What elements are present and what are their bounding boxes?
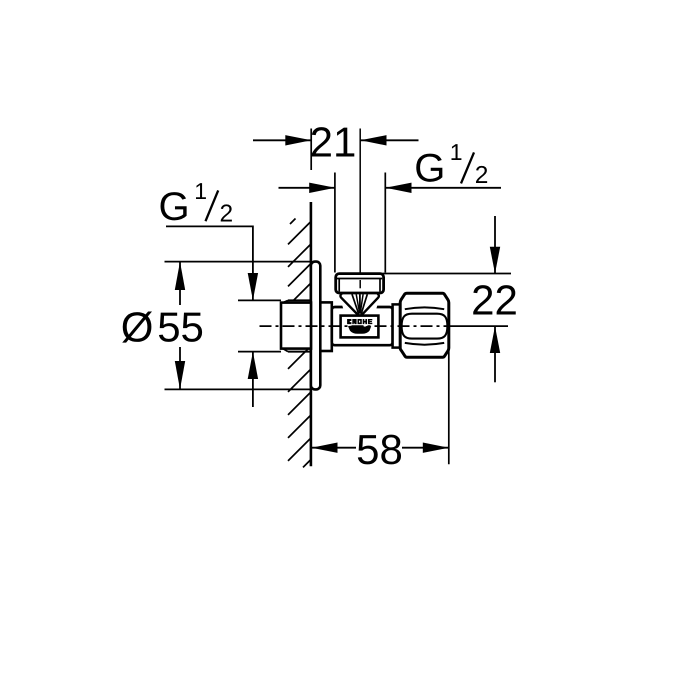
svg-text:58: 58 <box>356 426 403 473</box>
valve body <box>332 307 393 345</box>
dimension diameter 55 <box>121 262 311 390</box>
svg-text:2: 2 <box>220 200 234 227</box>
wall hatching <box>288 219 311 468</box>
compression nut <box>400 293 449 357</box>
cap top thread G1/2 <box>336 274 384 293</box>
dimension 21 <box>253 119 419 170</box>
centerline vertical <box>359 129 361 289</box>
ring between body and nut <box>393 304 401 347</box>
label G1/2 left <box>159 178 282 407</box>
svg-text:55: 55 <box>157 304 204 351</box>
svg-text:1: 1 <box>194 178 207 204</box>
svg-text:2: 2 <box>475 162 489 189</box>
svg-text:Ø: Ø <box>121 304 154 351</box>
male thread G1/2 into wall <box>281 300 311 351</box>
svg-text:21: 21 <box>310 119 357 166</box>
svg-text:22: 22 <box>471 277 518 324</box>
dimension 58 <box>312 345 449 473</box>
flange escutcheon <box>311 262 320 390</box>
collar at wall <box>320 302 332 351</box>
svg-text:G: G <box>159 185 190 229</box>
wall face line <box>310 202 313 466</box>
dimension G1/2 top <box>279 139 502 273</box>
dimension 22 <box>383 216 518 382</box>
bonnet cone <box>340 292 379 316</box>
centerline horizontal <box>260 325 509 327</box>
svg-text:1: 1 <box>450 139 463 165</box>
GROHE logo plate <box>341 316 379 338</box>
svg-text:G: G <box>414 146 445 190</box>
